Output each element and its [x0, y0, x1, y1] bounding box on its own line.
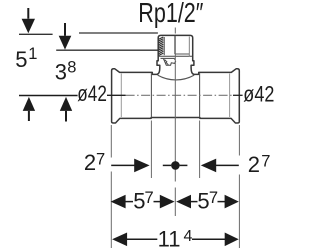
svg-text:7: 7	[145, 189, 154, 207]
svg-text:11: 11	[158, 227, 181, 250]
svg-text:ø42: ø42	[243, 83, 274, 107]
svg-text:2: 2	[248, 152, 260, 177]
svg-text:7: 7	[96, 151, 105, 169]
svg-text:1: 1	[28, 45, 37, 63]
svg-text:3: 3	[55, 60, 67, 85]
svg-text:4: 4	[184, 228, 193, 245]
svg-text:Rp1/2″: Rp1/2″	[138, 0, 203, 29]
svg-text:ø42: ø42	[77, 82, 107, 107]
svg-text:5: 5	[15, 47, 27, 72]
svg-text:8: 8	[67, 58, 76, 76]
svg-text:5: 5	[197, 189, 209, 214]
svg-text:7: 7	[261, 152, 270, 170]
svg-text:2: 2	[84, 150, 96, 175]
svg-text:7: 7	[209, 189, 218, 207]
